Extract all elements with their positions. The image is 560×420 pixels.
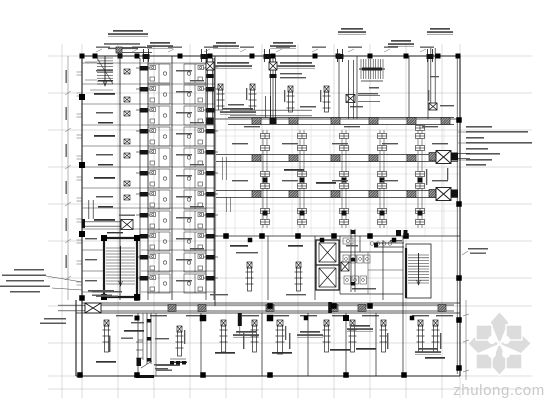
left-side annotation blocks xyxy=(14,269,44,271)
stair riser duct xyxy=(348,60,353,119)
bottom band labels xyxy=(96,361,116,363)
hall main duct upper xyxy=(228,118,454,125)
corridor upper tags xyxy=(92,291,122,293)
top dimension ticks xyxy=(96,49,426,52)
left wall window sills xyxy=(77,72,82,285)
wing room labels and fan-coil tags xyxy=(96,70,113,72)
top band fan-coils xyxy=(217,84,225,110)
structural axis grid xyxy=(48,44,532,398)
bottom band inner columns xyxy=(135,315,415,322)
service shaft room xyxy=(136,313,156,376)
bathroom cells wing B xyxy=(184,64,206,83)
elevator shaft xyxy=(316,240,339,290)
vertical duct shaft A xyxy=(140,58,148,300)
hall branch ducts and diffusers xyxy=(263,130,267,228)
stair bottom-right xyxy=(405,248,407,298)
svg-text:zhulong.com: zhulong.com xyxy=(453,382,545,399)
stair bottom-left xyxy=(104,238,137,298)
riser-duct junction blobs xyxy=(207,118,214,125)
toilet vertical duct xyxy=(351,229,355,292)
hall room label xyxy=(284,169,304,171)
top-left roof duct xyxy=(116,48,152,53)
right-side annotation block xyxy=(466,126,492,128)
left dimension line xyxy=(65,56,71,300)
top band partition walls xyxy=(273,56,428,119)
block partition walls xyxy=(268,236,403,300)
mid room fan-coil xyxy=(176,326,184,356)
hall ceiling grid xyxy=(215,124,460,236)
stair top-left xyxy=(97,56,113,86)
toilet riser blobs xyxy=(170,361,174,365)
corridor left intake xyxy=(58,305,85,311)
corridor duct labels xyxy=(116,315,133,316)
right exhaust fan C xyxy=(429,190,436,198)
vertical duct shaft B xyxy=(206,58,214,300)
guest-room wing dividers xyxy=(82,63,215,292)
structural columns xyxy=(77,54,462,378)
corridor supply fan xyxy=(85,303,101,313)
riser text blocks xyxy=(217,62,249,64)
toilet shaft labels xyxy=(156,365,180,367)
wall crossing blobs xyxy=(396,230,401,236)
fresh-air shaft right xyxy=(431,48,435,108)
toilet supply duct to louvre xyxy=(374,243,404,247)
top band risers xyxy=(207,58,212,119)
interior main walls xyxy=(76,56,460,313)
corridor main duct xyxy=(101,305,454,311)
bottom-left outside tag xyxy=(88,290,114,292)
bottom band label blocks xyxy=(236,331,256,333)
service duct drop xyxy=(147,313,151,364)
corridor branch stubs xyxy=(238,313,242,326)
stair top-left run lines xyxy=(97,58,113,84)
bottom band partition walls xyxy=(138,300,403,376)
top band coil tags xyxy=(214,88,215,100)
block fan-coils xyxy=(246,262,254,291)
block labels xyxy=(230,245,248,247)
right lower dim line xyxy=(463,300,469,380)
bottom band exhaust shaft xyxy=(276,320,285,354)
perimeter walls xyxy=(76,56,460,376)
bold wall segment xyxy=(136,375,154,378)
top band branch duct xyxy=(265,96,270,118)
top-left fan label xyxy=(104,43,140,45)
servery riser duct xyxy=(89,200,93,219)
right exhaust fan B xyxy=(429,153,436,161)
stair top-centre xyxy=(359,59,385,79)
right louvre tag xyxy=(468,248,488,250)
pantry fixtures xyxy=(343,238,353,244)
hall duct size labels xyxy=(232,143,248,144)
top wall duct stubs xyxy=(144,49,149,62)
kitchen supply duct xyxy=(358,96,380,102)
toilet block fixtures xyxy=(343,242,403,294)
wall stub blob xyxy=(118,54,123,59)
bottom band fan-coils xyxy=(103,320,111,352)
servery exhaust fan xyxy=(84,222,121,226)
bathroom cells wing A xyxy=(148,64,170,83)
top annotations xyxy=(113,30,143,32)
toilet exhaust riser xyxy=(341,262,349,271)
hall main duct middle xyxy=(216,155,458,162)
hall main duct lower xyxy=(216,191,458,198)
watermark pinwheel logo xyxy=(468,312,532,376)
